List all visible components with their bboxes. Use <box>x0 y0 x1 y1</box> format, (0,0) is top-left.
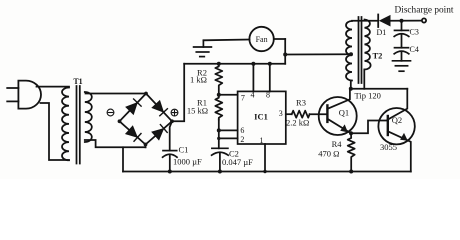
ground symbol (C4) <box>393 61 411 71</box>
Q1 emitter <box>327 119 351 134</box>
wire pin 4 <box>252 64 254 92</box>
node R4 ground <box>349 170 353 174</box>
wire V+ bus horizontal <box>184 63 285 65</box>
node Q1 emitter junction <box>349 131 353 135</box>
wire D1 to discharge terminal <box>391 20 422 22</box>
svg-text:Q1: Q1 <box>339 107 349 117</box>
wire collector node to T2 primary bottom <box>350 81 352 89</box>
node pin4 bus junction <box>251 62 255 66</box>
wire ground to fan <box>203 39 249 42</box>
svg-text:Discharge point: Discharge point <box>395 6 454 16</box>
transformer T1 core <box>77 86 80 164</box>
svg-text:3055: 3055 <box>380 142 397 152</box>
bridge diode bottom-right <box>152 125 167 140</box>
wire T2 secondary bottom drop <box>363 70 365 89</box>
IC1 box <box>238 91 286 144</box>
wire C2 bottom lead <box>219 153 221 172</box>
wire pin 2 <box>219 137 238 139</box>
svg-text:1: 1 <box>260 136 264 145</box>
node bridge right vertex <box>170 119 174 123</box>
minus terminal symbol <box>107 109 114 116</box>
Q2 base bar <box>387 116 389 135</box>
wire pin 6 <box>219 129 238 131</box>
wire C1 bottom lead <box>169 155 171 172</box>
wire supply to T2 center tap <box>285 53 351 55</box>
wire pin 1 to ground bus <box>264 144 266 172</box>
node collector junction <box>349 87 353 91</box>
node pin7 junction <box>217 93 221 97</box>
ground symbol (fan) <box>194 40 212 56</box>
node C2 ground <box>218 170 222 174</box>
capacitor C1 <box>163 151 177 158</box>
Q2 collector <box>388 89 408 120</box>
svg-text:0.047 µF: 0.047 µF <box>222 157 253 167</box>
Q2 emitter arrow <box>400 133 408 141</box>
node bridge bottom vertex <box>144 143 148 147</box>
svg-text:470 Ω: 470 Ω <box>318 149 339 159</box>
Q1 base bar <box>326 105 328 122</box>
svg-text:3: 3 <box>279 109 283 118</box>
wire T2 top to D1 <box>352 20 378 22</box>
svg-text:Fan: Fan <box>256 35 268 44</box>
wire fan right lead <box>274 38 285 40</box>
svg-text:1 kΩ: 1 kΩ <box>190 75 207 85</box>
wire plug bottom to T1 primary bottom <box>41 103 70 160</box>
capacitor C2 <box>212 148 229 155</box>
wire ground bus bottom <box>123 171 411 173</box>
transistor Q1 <box>319 97 357 135</box>
bridge diode top-right <box>153 101 168 116</box>
diode D1 <box>378 15 390 28</box>
node bridge left vertex <box>118 119 122 123</box>
svg-text:T2: T2 <box>373 51 383 61</box>
node C3 junction <box>400 19 404 23</box>
wire bridge plus to V+ bus <box>172 64 184 122</box>
svg-text:2: 2 <box>240 135 244 144</box>
wire C4 to ground <box>401 52 403 61</box>
transistor Q2 <box>378 108 414 144</box>
wire T1 secondary bottom <box>85 140 146 147</box>
wire C3 top lead <box>401 21 403 31</box>
svg-text:C3: C3 <box>410 28 419 37</box>
transformer T1 secondary winding <box>85 92 92 142</box>
wire left end of bottom bus <box>122 147 124 171</box>
Q1 emitter arrow <box>340 124 348 132</box>
transformer T2 left winding <box>346 21 352 81</box>
resistor R3 <box>292 111 310 118</box>
wire C1 top lead <box>170 121 172 150</box>
node bus riser junction <box>283 53 287 57</box>
resistor R2 <box>215 64 222 95</box>
wire pin 8 <box>269 64 271 92</box>
svg-text:R4: R4 <box>332 139 343 149</box>
svg-text:T1: T1 <box>73 77 82 86</box>
svg-text:2.2 kΩ: 2.2 kΩ <box>286 118 309 128</box>
fan M1 <box>249 27 273 51</box>
discharge terminal <box>422 18 426 22</box>
plus terminal symbol <box>171 109 178 116</box>
svg-text:Tip 120: Tip 120 <box>355 90 381 100</box>
resistor R1 <box>215 95 222 120</box>
transformer T2 right winding <box>365 20 371 70</box>
Q2 emitter <box>388 131 411 171</box>
AC plug P1 body <box>18 81 41 109</box>
capacitor C3 <box>394 30 409 36</box>
wire plug top to T1 primary top <box>37 86 70 88</box>
svg-text:Q2: Q2 <box>392 115 402 125</box>
Q1 collector <box>327 89 350 109</box>
wire Q1 emitter to Q2 base <box>351 121 388 134</box>
node pin2 junction <box>217 137 220 140</box>
plug prong top <box>7 87 18 89</box>
node pin8 bus junction <box>268 62 272 66</box>
node bridge top vertex <box>144 92 148 96</box>
svg-text:IC1: IC1 <box>254 112 268 122</box>
node pin6 junction <box>217 128 221 132</box>
node bus R2 junction <box>217 62 221 66</box>
node C1 ground <box>168 170 172 174</box>
wire R1 bottom rail to C2 <box>218 120 220 149</box>
svg-text:15 kΩ: 15 kΩ <box>187 105 208 115</box>
bridge rectifier diamond <box>120 94 173 145</box>
svg-text:C1: C1 <box>179 145 189 155</box>
svg-text:6: 6 <box>240 126 244 135</box>
bridge diode bottom-left <box>126 127 141 142</box>
svg-text:R3: R3 <box>296 97 306 107</box>
plug prong bottom <box>7 100 18 102</box>
svg-text:D1: D1 <box>377 28 387 37</box>
wire pin 3 to R3 <box>286 113 292 115</box>
wire collector bus <box>351 88 408 90</box>
transformer T1 primary winding <box>62 88 69 161</box>
resistor R4 <box>348 133 355 171</box>
node T2 center tap <box>349 52 353 56</box>
wire C3 to C4 <box>401 34 403 48</box>
svg-text:7: 7 <box>241 94 245 103</box>
capacitor C4 <box>394 48 409 54</box>
wire pin 7 <box>219 94 238 96</box>
svg-text:1000 µF: 1000 µF <box>173 157 202 167</box>
bridge diode top-left <box>126 99 141 114</box>
transformer T2 core <box>359 17 362 83</box>
wire bridge bottom vertex drop <box>145 145 147 148</box>
node pin1 ground <box>263 170 266 173</box>
wire R3 to Q1 base <box>310 113 328 115</box>
wire T1 secondary top to bridge top <box>86 93 147 95</box>
svg-text:C4: C4 <box>410 45 419 54</box>
wire bus riser to tap level <box>284 39 286 64</box>
